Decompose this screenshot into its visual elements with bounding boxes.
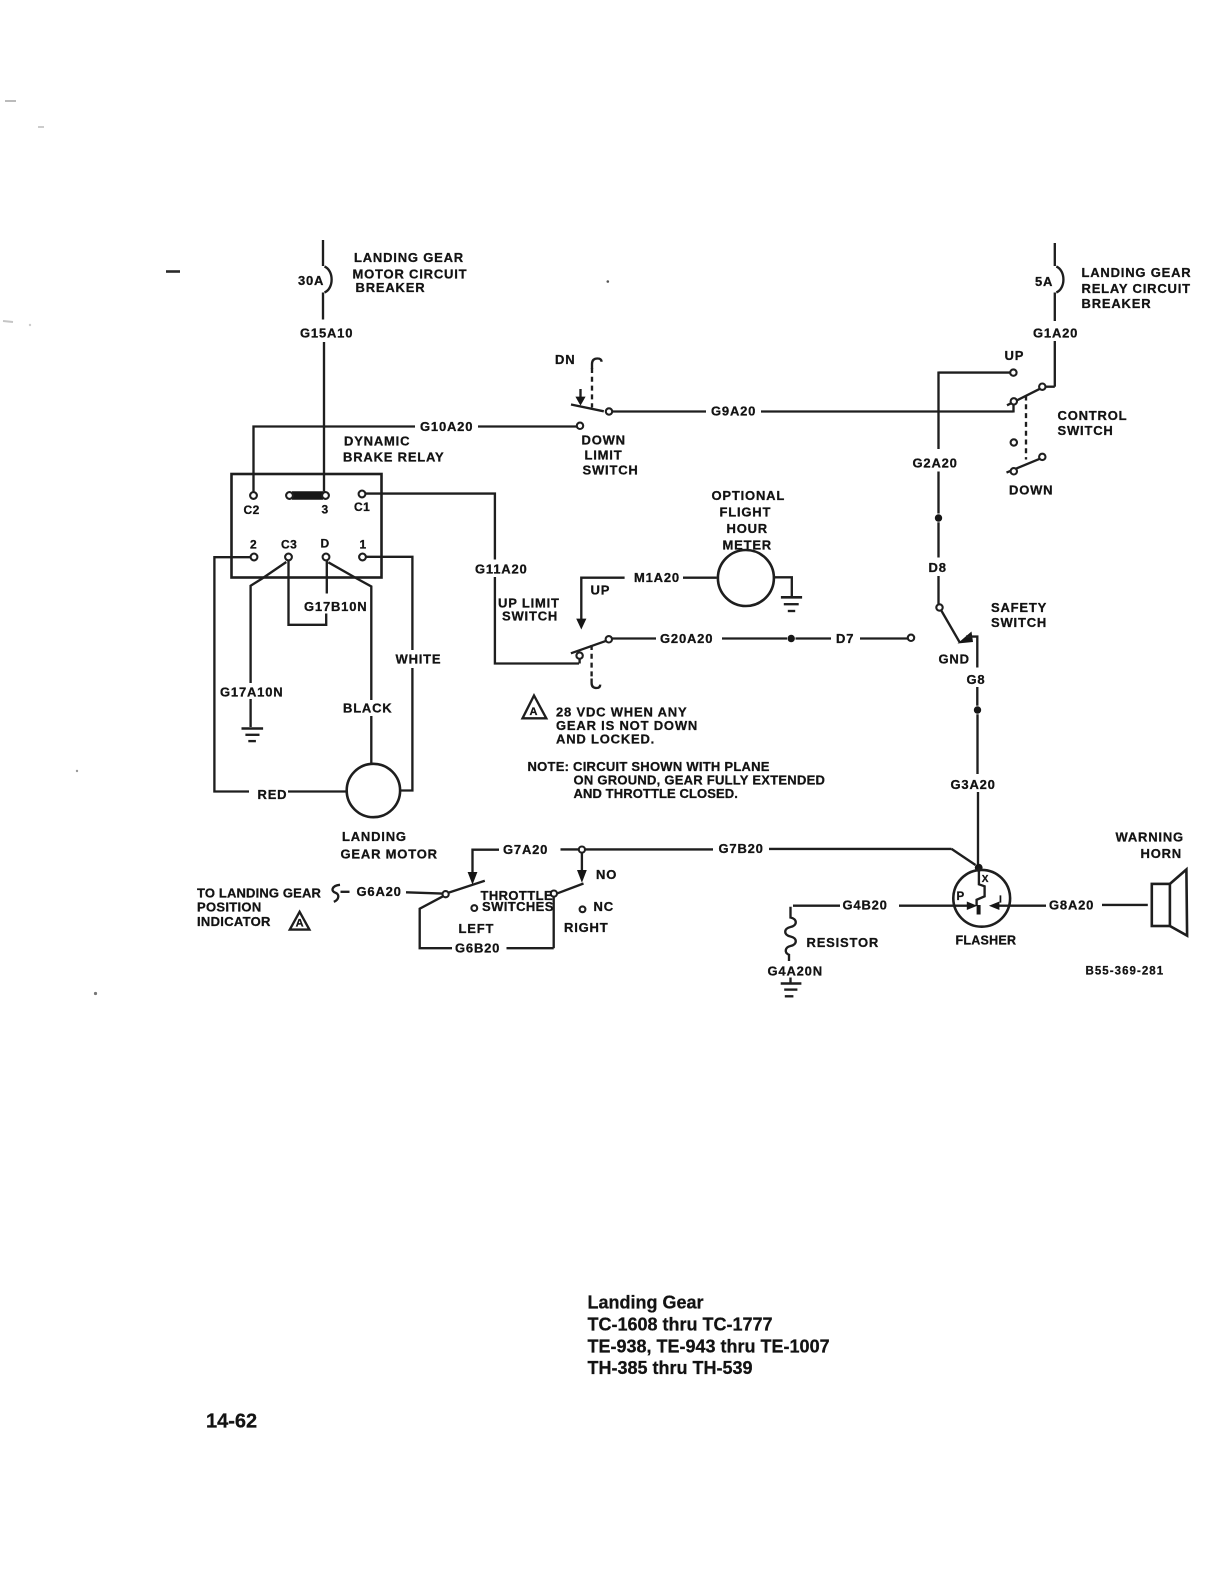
labels throttle switches [459, 888, 609, 936]
node G8 [967, 672, 986, 774]
svg-text:G4B20: G4B20 [843, 898, 888, 913]
up limit switch [498, 596, 612, 689]
wire terminal 2 to motor (RED) [214, 557, 346, 802]
svg-text:C2: C2 [244, 503, 260, 517]
svg-text:X: X [982, 874, 989, 885]
svg-text:RELAY CIRCUIT: RELAY CIRCUIT [1082, 281, 1191, 296]
svg-text:LANDING: LANDING [342, 829, 407, 844]
wire G20A20 with splice and D7 [612, 631, 914, 646]
wire G8A20 [1010, 898, 1148, 913]
svg-text:3: 3 [322, 503, 329, 517]
svg-text:HOUR: HOUR [727, 521, 768, 536]
svg-text:RESISTOR: RESISTOR [807, 935, 880, 950]
down limit switch [555, 352, 639, 478]
resistor R1 [768, 907, 880, 979]
svg-text:LANDING GEAR: LANDING GEAR [1082, 265, 1192, 280]
svg-text:G10A20: G10A20 [420, 419, 473, 434]
flag note A: 28 VDC [523, 696, 699, 747]
wire G15A10 [300, 326, 353, 492]
svg-text:WHITE: WHITE [396, 652, 442, 667]
svg-text:G8: G8 [967, 672, 986, 687]
svg-text:DOWN: DOWN [1009, 483, 1053, 498]
svg-text:DYNAMIC: DYNAMIC [344, 434, 410, 449]
wire G17A10N (C3 to ground) [220, 562, 286, 727]
junction dot (G3A20/G7B20 to flasher) [975, 864, 983, 872]
svg-text:Landing Gear: Landing Gear [588, 1293, 704, 1313]
wire G2A20 [913, 372, 958, 514]
circuit breaker 5A (landing gear relay circuit breaker) [1035, 243, 1063, 321]
ground (G17A10N) [242, 729, 264, 742]
svg-text:AND THROTTLE CLOSED.: AND THROTTLE CLOSED. [574, 786, 739, 801]
svg-text:M1A20: M1A20 [634, 570, 680, 585]
safety switch [936, 600, 1047, 668]
label: to landing gear position indicator [197, 886, 322, 930]
landing gear motor M1 [341, 764, 438, 862]
svg-text:TE-938, TE-943 thru TE-1007: TE-938, TE-943 thru TE-1007 [588, 1337, 830, 1357]
svg-text:G1A20: G1A20 [1033, 326, 1078, 341]
svg-text:C1: C1 [354, 500, 370, 514]
splice D8 [929, 514, 947, 604]
left throttle switch [443, 881, 485, 911]
flag A triangle (position indicator) [290, 912, 310, 930]
ground (hour meter) [781, 597, 802, 611]
svg-text:UP: UP [1005, 348, 1025, 363]
svg-text:GEAR MOTOR: GEAR MOTOR [341, 847, 438, 862]
relay coil (between C2 area and terminal 3) [286, 492, 329, 499]
svg-text:BREAKER: BREAKER [1082, 296, 1152, 311]
svg-text:UP: UP [591, 583, 611, 598]
svg-text:C3: C3 [281, 538, 297, 552]
relay K1: dynamic brake relay [232, 434, 445, 578]
right throttle switch [551, 884, 614, 915]
circuit breaker 30A (landing gear motor circuit breaker) [298, 240, 332, 320]
footer text [588, 1293, 830, 1379]
svg-text:SAFETY: SAFETY [991, 600, 1047, 615]
svg-text:2: 2 [250, 538, 257, 552]
svg-text:DN: DN [555, 352, 575, 367]
terminal 2 [250, 538, 257, 561]
svg-text:G17B10N: G17B10N [304, 599, 367, 614]
note text [528, 759, 826, 801]
svg-text:G17A10N: G17A10N [220, 685, 283, 700]
svg-text:G3A20: G3A20 [951, 777, 996, 792]
wire G10A20 (C2 up to down limit switch) [254, 419, 577, 492]
control switch [939, 348, 1128, 498]
svg-text:RIGHT: RIGHT [564, 920, 608, 935]
svg-text:G4A20N: G4A20N [768, 964, 823, 979]
svg-text:NC: NC [594, 899, 614, 914]
svg-text:B55-369-281: B55-369-281 [1086, 966, 1165, 978]
svg-text:G11A20: G11A20 [475, 562, 528, 577]
wire M1A20 with UP arrow [576, 570, 717, 630]
label: LANDING GEAR RELAY CIRCUIT BREAKER [1082, 265, 1192, 311]
terminal C3 [281, 538, 297, 561]
svg-text:GND: GND [939, 652, 970, 667]
wire G7A20 with arrows [468, 842, 618, 885]
terminal D [321, 537, 330, 561]
svg-text:SWITCH: SWITCH [583, 463, 639, 478]
svg-text:FLASHER: FLASHER [956, 934, 1017, 948]
svg-text:SWITCH: SWITCH [1058, 423, 1114, 438]
warning horn LS1 [1116, 830, 1188, 936]
svg-text:G15A10: G15A10 [300, 326, 353, 341]
wire G7B20 [585, 841, 975, 865]
svg-text:1: 1 [360, 538, 367, 552]
wire G9A20 [612, 404, 1013, 419]
svg-text:INDICATOR: INDICATOR [197, 914, 271, 929]
svg-text:BRAKE RELAY: BRAKE RELAY [343, 450, 445, 465]
wire break squiggle [333, 885, 340, 902]
svg-text:WARNING: WARNING [1116, 830, 1184, 845]
svg-text:G2A20: G2A20 [913, 456, 958, 471]
svg-text:TH-385 thru TH-539: TH-385 thru TH-539 [588, 1358, 753, 1378]
svg-text:DOWN: DOWN [582, 433, 626, 448]
svg-text:P: P [957, 891, 965, 903]
svg-text:G9A20: G9A20 [711, 404, 756, 419]
svg-text:G7B20: G7B20 [719, 841, 764, 856]
wire G1A20 [1033, 326, 1078, 387]
svg-text:TC-1608 thru TC-1777: TC-1608 thru TC-1777 [588, 1315, 773, 1335]
svg-text:BREAKER: BREAKER [356, 280, 426, 295]
svg-text:TO LANDING GEAR: TO LANDING GEAR [197, 886, 322, 901]
wire G6A20 [341, 884, 443, 899]
jumper G17B10N (C3 to D) [289, 561, 368, 625]
flasher U1 [953, 870, 1016, 948]
svg-text:OPTIONAL: OPTIONAL [712, 488, 786, 503]
svg-text:RED: RED [258, 787, 288, 802]
ground (G4A20N) [781, 978, 802, 997]
svg-text:D7: D7 [836, 631, 854, 646]
scan artifacts [3, 101, 609, 995]
svg-text:LIMIT: LIMIT [585, 448, 623, 463]
wire G6B20 [420, 896, 554, 955]
svg-text:14-62: 14-62 [206, 1411, 257, 1433]
svg-text:5A: 5A [1035, 274, 1053, 289]
wire terminal D to motor (BLACK) [328, 562, 392, 764]
wire G4B20 [793, 898, 953, 913]
svg-text:G6B20: G6B20 [455, 941, 500, 956]
optional flight hour meter M2 [712, 488, 792, 606]
label: LANDING GEAR MOTOR CIRCUIT BREAKER [353, 250, 468, 295]
svg-text:G8A20: G8A20 [1049, 898, 1094, 913]
svg-text:G7A20: G7A20 [503, 842, 548, 857]
svg-text:HORN: HORN [1141, 846, 1182, 861]
svg-text:CONTROL: CONTROL [1058, 408, 1128, 423]
svg-text:D8: D8 [929, 560, 947, 575]
svg-text:D: D [321, 537, 330, 551]
wire terminal 1 to motor (WHITE) [366, 557, 442, 791]
svg-text:G6A20: G6A20 [357, 884, 402, 899]
terminal C1 [354, 491, 370, 514]
svg-text:FLIGHT: FLIGHT [720, 505, 772, 520]
svg-text:A: A [296, 918, 304, 930]
svg-text:I: I [999, 895, 1002, 906]
svg-text:LANDING GEAR: LANDING GEAR [354, 250, 464, 265]
svg-text:POSITION: POSITION [197, 900, 262, 915]
svg-text:SWITCH: SWITCH [991, 615, 1047, 630]
svg-text:G20A20: G20A20 [660, 631, 713, 646]
svg-text:AND LOCKED.: AND LOCKED. [556, 732, 655, 747]
terminal 1 [359, 538, 366, 561]
wire G11A20 (C1 to up limit switch) [366, 494, 579, 664]
svg-text:30A: 30A [298, 273, 324, 288]
svg-text:NO: NO [596, 867, 617, 882]
svg-text:SWITCH: SWITCH [502, 609, 558, 624]
svg-text:LEFT: LEFT [459, 921, 495, 936]
svg-text:SWITCHES: SWITCHES [482, 899, 554, 914]
svg-text:A: A [530, 706, 538, 718]
terminal C2 [244, 492, 260, 517]
wire G3A20 [951, 777, 996, 864]
svg-text:BLACK: BLACK [343, 701, 393, 716]
